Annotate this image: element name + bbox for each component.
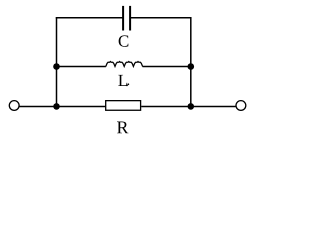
- wire bottom rail from left terminal to resistor: [19, 106, 105, 108]
- wire top-left vertical: [56, 17, 58, 66]
- terminal left (open circle): [9, 101, 19, 111]
- wire bottom rail from resistor to right terminal: [141, 106, 236, 108]
- small hook terminal after L (as in source glyph): [127, 85, 129, 86]
- capacitor C left plate: [122, 6, 124, 31]
- wire middle rail left segment: [57, 66, 106, 68]
- inductor L: [106, 62, 143, 67]
- terminal right (open circle): [236, 101, 246, 111]
- junction dot left-bottom: [53, 103, 60, 110]
- junction dot left-middle: [53, 63, 60, 70]
- wire top rail left segment: [56, 17, 123, 19]
- junction dot right-bottom: [188, 103, 195, 110]
- capacitor value label C: [119, 35, 129, 46]
- capacitor C right plate: [129, 6, 131, 31]
- junction dot right-middle: [188, 63, 195, 70]
- wire top-right vertical: [190, 17, 192, 66]
- wire left vertical between middle and bottom rails: [56, 67, 58, 107]
- resistor value label R: [117, 122, 128, 134]
- resistor R body: [106, 101, 141, 111]
- wire middle rail right segment: [143, 66, 191, 68]
- wire top rail right segment: [131, 17, 192, 19]
- wire right vertical between middle and bottom rails: [190, 67, 192, 107]
- inductor value label L: [118, 75, 127, 86]
